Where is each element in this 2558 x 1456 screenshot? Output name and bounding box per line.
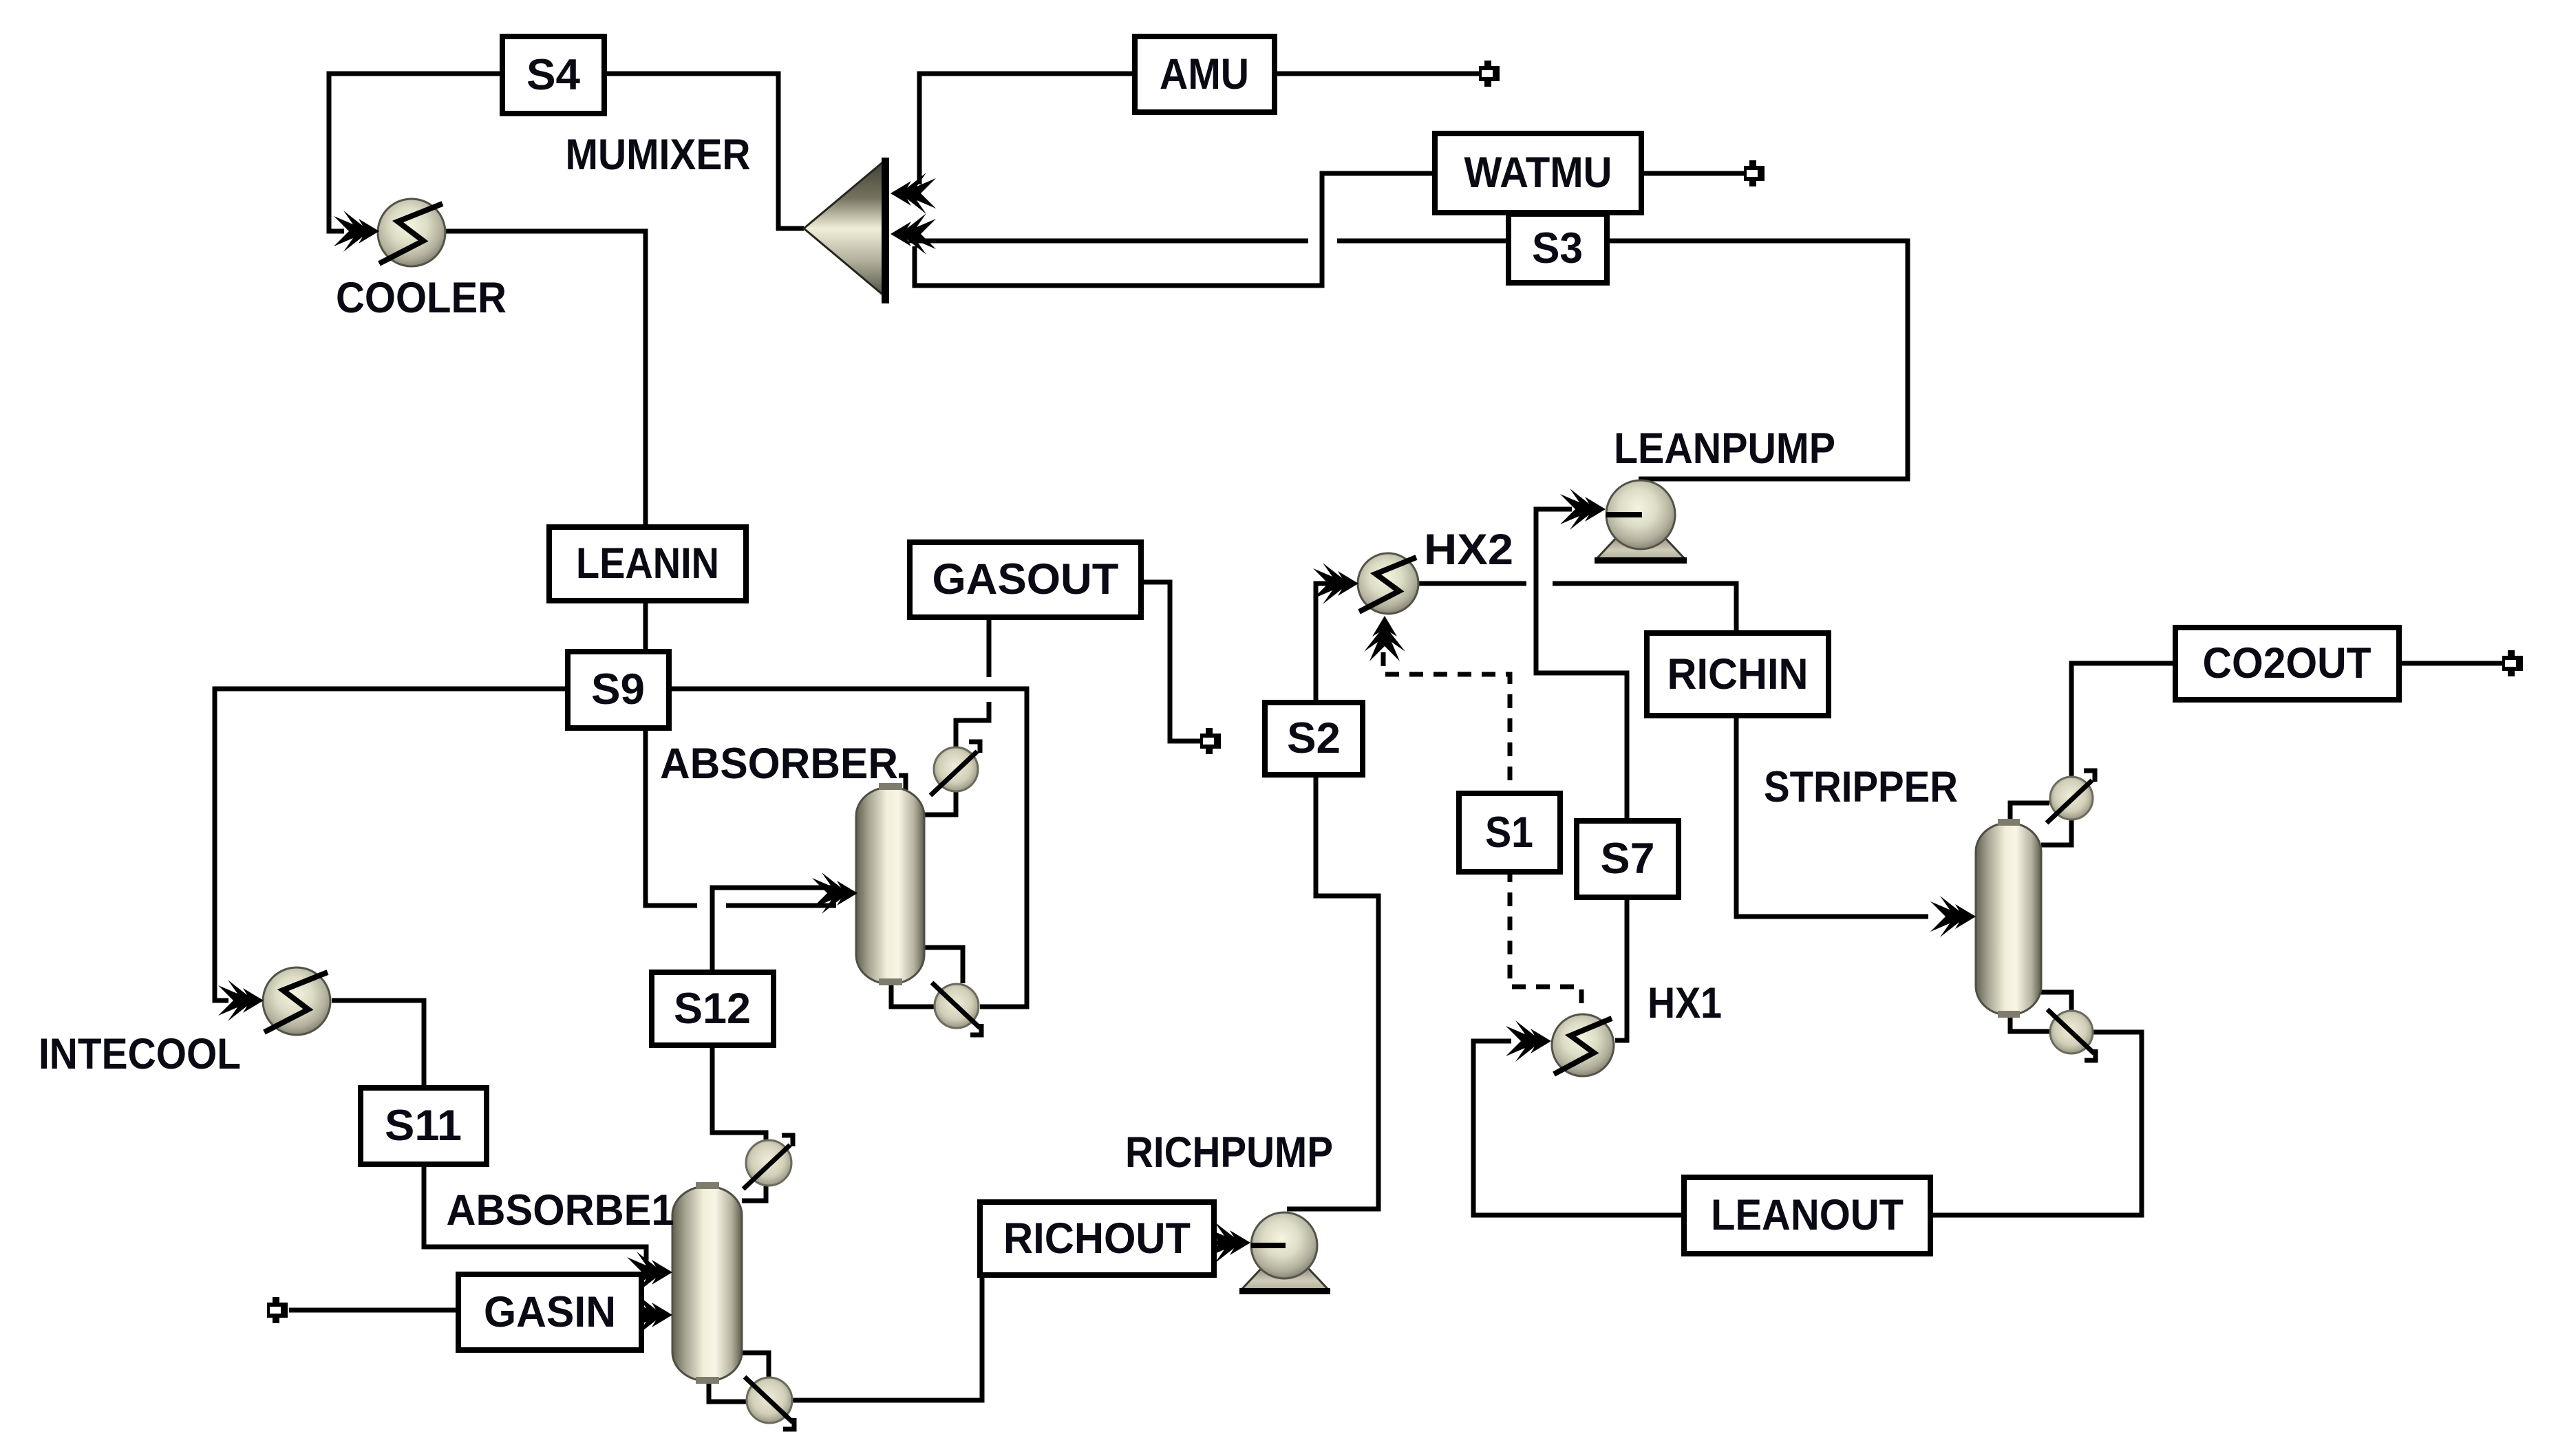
wire ABSORBE1 reboiler link: neck down right to sphere left (709, 1381, 746, 1402)
wire RICHIN: HX2 outlet right (gap at pump-inlet crossing) down to stripper feed (1418, 581, 1526, 586)
arrow into LEANPUMP (1560, 489, 1606, 530)
arrow into MUMIXER lower (S3/WATMU) (891, 213, 936, 255)
box S7 (1577, 821, 1678, 897)
wire WATMU: from export left, down, left, up into mixer lower arrow (915, 173, 1744, 286)
svg-text:STRIPPER: STRIPPER (1764, 763, 1958, 811)
stripper condenser sphere (2050, 777, 2093, 820)
svg-text:LEANIN: LEANIN (576, 539, 719, 588)
absorber reboiler sphere (935, 984, 979, 1028)
wire LEANOUT: HX1 inlet from leanout box (1473, 1041, 1684, 1215)
box GASOUT (910, 542, 1141, 617)
wire S3 left segment: mixer lower arrow to crossing gap (908, 239, 1308, 244)
column ABSORBE1 (672, 1135, 794, 1429)
svg-text:LEANOUT: LEANOUT (1711, 1191, 1904, 1239)
wire LEANIN lower segment after S12 crossing into absorber arrow (726, 903, 836, 908)
wire S12: absorber mid arrow tail to S12 box (712, 888, 836, 972)
box S3 (1509, 214, 1607, 283)
svg-text:S3: S3 (1532, 224, 1583, 272)
glyph CO2OUT export (2502, 650, 2523, 676)
wire stripper bottoms: reboiler sphere right, down, left to LEANOUT box (1930, 1032, 2142, 1215)
box GASIN (458, 1274, 641, 1350)
column STRIPPER (1976, 771, 2096, 1060)
box S11 (361, 1088, 487, 1164)
box S2 (1265, 703, 1363, 775)
heater HX1 (1552, 1014, 1614, 1076)
wire LEANPUMP discharge to S3 riser (1639, 477, 1908, 482)
column ABSORBER (856, 742, 981, 1035)
svg-text:HX1: HX1 (1648, 979, 1722, 1027)
box RICHOUT (980, 1202, 1214, 1275)
svg-text:S1: S1 (1485, 809, 1533, 857)
svg-text:RICHPUMP: RICHPUMP (1125, 1128, 1333, 1177)
svg-text:S4: S4 (526, 51, 580, 99)
wire RICHOUT to richpump arrow (1214, 1241, 1230, 1245)
box LEANIN (549, 527, 746, 601)
wire absorber condenser return: sphere bottom down left to vessel (924, 792, 956, 815)
box S4 (502, 36, 604, 114)
svg-text:MUMIXER: MUMIXER (566, 131, 751, 179)
wire absorber reboiler link: neck down right to sphere left (891, 984, 934, 1007)
arrow into HX2 (1313, 563, 1358, 604)
arrow into ABSORBE1 lower (GASIN) (627, 1294, 672, 1336)
arrow into COOLER (334, 211, 379, 252)
box S1 (1459, 793, 1560, 872)
box RICHIN (1647, 633, 1829, 716)
wire S7: leanpump inlet down through S7 box to HX1 outlet (1536, 509, 1627, 1040)
pump LEANPUMP (1595, 480, 1687, 564)
svg-text:AMU: AMU (1160, 50, 1249, 98)
svg-text:S2: S2 (1287, 714, 1341, 762)
wire GASOUT right: box to export glyph (1141, 582, 1200, 741)
wire LEANIN: cooler outlet right then down through LEANIN and S9 boxes (444, 231, 697, 906)
svg-text:S9: S9 (591, 665, 645, 714)
glyph AMU export (1479, 61, 1500, 87)
stream label boxes (361, 36, 2399, 1350)
wire S2: richpump discharge up to HX2 inlet arrow (1287, 584, 1378, 1209)
wire absorber reboiler feed: vessel side to sphere top (924, 948, 963, 983)
svg-text:GASOUT: GASOUT (932, 555, 1119, 603)
wire S11: intecool outlet right, down through S11 box to ABSORBE1 arrow (332, 1000, 646, 1261)
wire S4: mixer apex to cooler inlet (329, 74, 804, 231)
svg-text:RICHOUT: RICHOUT (1003, 1214, 1191, 1263)
svg-text:CO2OUT: CO2OUT (2203, 639, 2372, 687)
wire AMU: from mixer top arrow up and right to export (919, 74, 1479, 184)
ABSORBE1 reboiler sphere (747, 1378, 792, 1423)
svg-text:HX2: HX2 (1424, 526, 1513, 574)
heater HX2 (1358, 553, 1418, 614)
heat stream S1 dashed path (1383, 652, 1581, 1013)
wire GASOUT: absorber condenser sphere top up to box (gap at S9 crossing) (956, 702, 989, 749)
glyph GASIN import (267, 1297, 288, 1323)
wire S3 right segment: crossing gap through S3 box to leanpump riser (1337, 241, 1908, 479)
svg-text:INTECOOL: INTECOOL (39, 1030, 241, 1078)
heater INTECOOL (263, 967, 330, 1035)
arrow into RICHPUMP (1205, 1222, 1250, 1263)
mixer MUMIXER (804, 158, 889, 303)
glyph WATMU export (1744, 160, 1765, 186)
svg-text:S7: S7 (1601, 835, 1655, 883)
block labels (39, 131, 1958, 1234)
wire stripper condenser return: sphere bottom to vessel (2041, 820, 2071, 845)
box LEANOUT (1684, 1177, 1930, 1254)
svg-text:ABSORBE1: ABSORBE1 (447, 1186, 674, 1234)
wire ABSORBE1 condenser return: sphere bottom to vessel (742, 1186, 766, 1201)
arrow into MUMIXER upper (AMU) (891, 173, 936, 214)
svg-text:ABSORBER: ABSORBER (660, 740, 898, 788)
box S9 (568, 652, 669, 728)
arrow into ABSORBE1 upper (S11) (627, 1252, 672, 1293)
label ABSORBER (with white bg hiding feed line) (650, 740, 899, 788)
svg-text:RICHIN: RICHIN (1667, 650, 1809, 698)
absorber condenser sphere (934, 747, 978, 791)
svg-text:S11: S11 (385, 1102, 462, 1150)
wire S12 lower: S12 box to ABSORBE1 condenser sphere (712, 1045, 766, 1142)
wire stripper reboiler feed: vessel side to sphere top (2038, 992, 2071, 1010)
ABSORBE1 condenser sphere (746, 1140, 791, 1186)
heater COOLER (378, 199, 445, 266)
arrow into ABSORBER mid feed (812, 872, 857, 914)
wire RICHOUT: ABSORBE1 reboiler sphere right, up into RICHOUT box (793, 1277, 982, 1400)
svg-text:COOLER: COOLER (336, 274, 507, 322)
wire GASIN: import glyph to box to ABSORBE1 lower arrow (289, 1308, 458, 1313)
svg-text:GASIN: GASIN (484, 1288, 616, 1336)
box S12 (652, 972, 774, 1045)
svg-text:LEANPUMP: LEANPUMP (1614, 425, 1835, 473)
box WATMU (1435, 133, 1641, 213)
glyph GASOUT export (1200, 728, 1221, 754)
stripper reboiler sphere (2050, 1011, 2093, 1053)
arrow into STRIPPER (RICHIN) (1930, 896, 1976, 937)
svg-text:WATMU: WATMU (1464, 149, 1612, 197)
wire stripper reboiler link: neck down right to sphere left (2010, 1015, 2049, 1031)
pump RICHPUMP (1239, 1212, 1330, 1294)
wire CO2OUT: stripper condenser sphere top up and right to export (2071, 663, 2175, 776)
wire S9: absorber reboiler sphere right, up, left, down to intecool (215, 689, 1027, 1007)
stream labels (385, 50, 2372, 1336)
wire stripper condenser link: neck to sphere left (2010, 803, 2049, 823)
box CO2OUT (2175, 628, 2399, 700)
box AMU (1135, 36, 1275, 112)
svg-text:S12: S12 (674, 985, 751, 1033)
arrow into INTECOOL (218, 980, 264, 1021)
arrow into HX2 bottom (heat stream S1) (1364, 616, 1405, 661)
wire LEANIN hidden top feed to absorber neck (650, 775, 906, 798)
wire ABSORBE1 reboiler feed: vessel side right down to sphere top (738, 1353, 769, 1377)
arrow into HX1 (1506, 1020, 1551, 1062)
